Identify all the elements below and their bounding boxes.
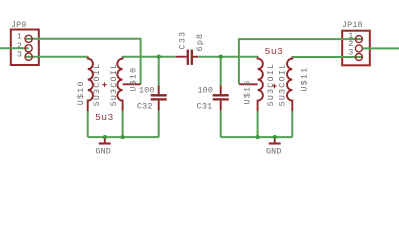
svg-text:5U3COIL: 5U3COIL — [266, 63, 276, 107]
tap lead U$10 — [123, 83, 141, 85]
inductor U$11 winding A with tap — [258, 56, 263, 111]
svg-text:C32: C32 — [137, 101, 153, 111]
svg-text:3: 3 — [348, 47, 353, 57]
ground symbol right — [274, 138, 276, 143]
wire C33 to U$11 winding A top — [198, 56, 258, 58]
wire JP9 pin2 to edge — [0, 47, 29, 49]
svg-text:GND: GND — [266, 146, 282, 156]
junction node rail-U$10B — [121, 135, 125, 139]
wire U$10 winding B bottom — [122, 111, 124, 137]
svg-text:JP9: JP9 — [11, 20, 27, 30]
connector JP9 — [11, 30, 39, 66]
wire C31 branch top — [220, 57, 222, 86]
wire C32 branch bottom — [158, 111, 160, 137]
svg-text:U$10: U$10 — [129, 67, 139, 92]
junction node bus-C32 — [157, 55, 161, 59]
inductor U$11 winding B — [287, 56, 292, 111]
svg-text:3: 3 — [17, 50, 22, 60]
origin cross left pair — [102, 82, 107, 87]
wire U$10 winding B top to C33 — [122, 56, 175, 58]
svg-text:GND: GND — [95, 146, 111, 156]
svg-text:C33: C33 — [178, 31, 188, 50]
wire JP9 pin1 to U$10 tap — [25, 39, 141, 85]
junction node rail-U$11A — [256, 135, 260, 139]
wire JP10 pin2 to edge — [362, 47, 399, 49]
pin circles JP10 — [355, 36, 362, 61]
capacitor C33 — [176, 50, 199, 65]
svg-text:100: 100 — [198, 86, 214, 96]
pin circles JP9 — [25, 35, 32, 60]
wire U$11 winding A bottom — [257, 111, 259, 137]
tap lead U$11 — [239, 83, 258, 85]
inductor U$10 winding A — [88, 56, 93, 111]
svg-text:5u3: 5u3 — [265, 46, 284, 57]
svg-text:C31: C31 — [197, 101, 213, 111]
svg-text:JP10: JP10 — [342, 20, 363, 30]
junction node rail-GND left — [103, 135, 107, 139]
origin cross right pair — [272, 84, 277, 89]
svg-text:U$10: U$10 — [76, 80, 86, 105]
capacitor C32 — [151, 85, 167, 110]
wire JP9 pin3 to U$10 winding A top — [25, 56, 88, 58]
junction node rail-GND right — [273, 135, 277, 139]
svg-text:5U3COIL: 5U3COIL — [109, 63, 119, 107]
svg-text:6p8: 6p8 — [195, 33, 205, 52]
wire U$10 winding A bottom — [87, 111, 89, 137]
wire U$11 winding B top to JP10 pin3 — [292, 56, 362, 58]
svg-text:5u3: 5u3 — [95, 112, 114, 123]
wire JP10 pin1 to U$11 tap — [239, 39, 363, 84]
ground rail left — [88, 136, 159, 138]
svg-text:100: 100 — [139, 86, 155, 96]
ground symbol left — [104, 138, 106, 143]
inductor U$10 winding B with tap — [117, 56, 122, 111]
svg-text:U$11: U$11 — [300, 67, 310, 92]
connector JP10 — [342, 31, 370, 66]
wire C31 branch bottom — [220, 111, 222, 137]
svg-text:5U3COIL: 5U3COIL — [92, 63, 102, 107]
svg-text:1: 1 — [17, 31, 22, 41]
svg-text:5U3COIL: 5U3COIL — [277, 63, 287, 107]
wire U$11 winding B bottom — [291, 111, 293, 137]
wire C32 branch top — [158, 57, 160, 86]
svg-text:U$15: U$15 — [243, 79, 253, 104]
capacitor C31 — [213, 85, 229, 110]
ground rail right — [221, 136, 293, 138]
junction node bus-C31 — [219, 55, 223, 59]
